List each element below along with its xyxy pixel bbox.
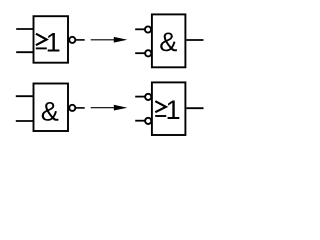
equivalence arrow (top row) head [114, 37, 128, 43]
svg-text:1: 1 [166, 94, 181, 125]
svg-text:1: 1 [46, 27, 61, 58]
NOR gate U1 label ">=1" chevron [36, 34, 47, 46]
wire: U4 input B stub [135, 120, 145, 122]
wire: U3 input A [16, 95, 34, 97]
wire: U2 output [186, 39, 203, 41]
svg-text:&: & [159, 26, 177, 57]
wire: U1 input A [16, 28, 33, 30]
equivalence arrow (top row) shaft [91, 39, 116, 41]
wire: U4 input A stub [135, 96, 145, 98]
wire: U1 output stub [76, 39, 85, 41]
wire: U3 input B [16, 120, 34, 122]
U4 input A inversion bubble [145, 94, 151, 100]
equivalence arrow (bottom row) head [114, 105, 128, 111]
U2 input A inversion bubble [145, 26, 151, 32]
svg-text:&: & [41, 95, 59, 126]
wire: U3 output stub [76, 107, 85, 109]
U4 input B inversion bubble [145, 118, 151, 124]
OR gate U4 body [152, 82, 186, 135]
wire: U4 output [186, 107, 203, 109]
wire: U2 input B stub [135, 52, 145, 54]
equivalence arrow (bottom row) shaft [91, 107, 116, 109]
wire: U2 input A stub [135, 28, 145, 30]
OR gate U4 label ">=1" bar [155, 115, 166, 117]
NOR gate U1 label ">=1" bar [36, 47, 47, 49]
OR gate U4 label ">=1" chevron [155, 101, 166, 112]
NOR gate U1 body [34, 16, 69, 63]
U3 output inversion bubble [69, 105, 75, 111]
U1 output inversion bubble [69, 37, 75, 43]
wire: U1 input B [16, 51, 33, 53]
NAND gate U3 body [34, 84, 69, 132]
AND gate U2 body [152, 14, 186, 67]
U2 input B inversion bubble [145, 50, 151, 56]
